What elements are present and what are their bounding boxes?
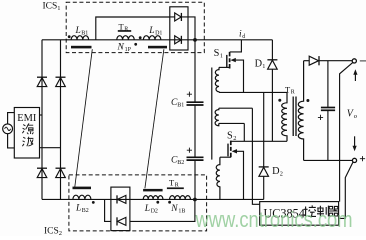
winding T1b (middle) <box>215 108 219 126</box>
svg-text:R: R <box>124 26 128 32</box>
svg-text:2: 2 <box>280 171 283 178</box>
wire riser to top diode <box>96 17 170 40</box>
svg-text:1B: 1B <box>178 208 185 214</box>
svg-text:B1: B1 <box>177 102 184 108</box>
diode D2 branch <box>263 92 265 166</box>
glyph 滤 <box>22 123 33 134</box>
inductor L_B2 <box>73 195 91 199</box>
wire EMI to left bridge leg <box>40 114 43 116</box>
bridge diode top-right <box>56 77 66 86</box>
polarity dot N_1B <box>168 201 171 204</box>
mosfet S1 <box>219 52 244 93</box>
wire bottom rail <box>42 198 264 200</box>
core line middle <box>211 68 213 160</box>
output capacitor <box>321 107 335 109</box>
svg-text:L: L <box>148 26 154 36</box>
node B junction dot <box>193 198 197 202</box>
wire S2 drain line <box>231 140 287 142</box>
wire bottom diode loop left <box>105 199 111 221</box>
wire bottom diode out right to node B <box>130 199 195 221</box>
core coupling diagonal right <box>145 49 164 188</box>
bridge diode bottom-right <box>56 168 66 177</box>
wire secondary top to output <box>304 60 309 62</box>
wire terminal diagonal top <box>340 63 353 202</box>
controller box UC3854 <box>260 202 339 226</box>
polarity dot L_D2 <box>156 201 159 204</box>
diode D1 branch <box>271 40 273 60</box>
output terminal top <box>352 59 356 63</box>
svg-text:L: L <box>75 26 81 36</box>
dashed box ICS2 <box>69 175 207 231</box>
polarity dot L_B1 <box>68 35 71 38</box>
polarity dot L_D1 <box>139 36 142 39</box>
minus mark <box>360 60 366 62</box>
glyph 波 <box>22 137 33 146</box>
inductor L_D1 <box>143 36 160 40</box>
core coupling diagonal left <box>75 49 93 187</box>
diode D_f2 bottom (points right) <box>175 36 182 44</box>
winding T1c (S2 cell) <box>216 157 220 199</box>
AC source V_in <box>3 113 15 148</box>
svg-text:2: 2 <box>233 135 236 142</box>
wire capacitor bus <box>194 40 196 102</box>
wire secondary bottom to output <box>304 159 353 161</box>
svg-text:www.cntronics.com: www.cntronics.com <box>195 207 353 232</box>
arrow V_o up <box>354 74 356 82</box>
svg-text:o: o <box>354 113 358 120</box>
svg-text:N: N <box>117 42 125 52</box>
mosfet S2 <box>220 141 244 200</box>
svg-text:B2: B2 <box>82 208 89 214</box>
plus mark <box>360 156 365 161</box>
node A junction dot <box>193 38 197 42</box>
bridge diode top-left <box>37 77 47 86</box>
wire terminal diagonal bottom <box>339 162 353 218</box>
core bar under L_B1 <box>71 46 92 49</box>
svg-text:B1: B1 <box>81 31 88 37</box>
inductor L_D2 <box>143 196 163 200</box>
diode D_f4 bottom (points left) <box>117 217 126 225</box>
bridge diode bottom-left <box>37 168 47 177</box>
svg-text:ICS2: ICS2 <box>44 226 62 236</box>
diode D_f3 top (points left) <box>117 195 126 203</box>
polarity dot T_R secondary <box>306 99 309 102</box>
capacitor C_B2 <box>187 156 204 158</box>
svg-text:R: R <box>175 183 179 189</box>
dashed box ICS1 <box>66 2 204 52</box>
glyph 制 <box>317 206 328 217</box>
plus output cap <box>318 115 323 120</box>
svg-text:R: R <box>291 89 295 95</box>
transformer T_R secondary winding <box>298 61 303 161</box>
wire S1 drain riser <box>230 40 242 52</box>
polarity dot N_1P <box>134 43 137 46</box>
winding N_1P <box>117 36 134 40</box>
EMI filter box <box>14 108 39 159</box>
wire winding bottom to riser <box>219 122 245 124</box>
wire winding top to riser <box>219 107 253 109</box>
transformer T_R core <box>292 97 294 137</box>
diode box ICS1 <box>170 7 188 50</box>
svg-text:D2: D2 <box>151 208 158 214</box>
inductor L_B1 <box>71 36 88 40</box>
output diode (points right) <box>309 56 318 65</box>
svg-text:1: 1 <box>262 63 265 70</box>
output terminal bottom <box>352 158 356 162</box>
core bar T_R bottom <box>167 187 184 189</box>
capacitor C_B1 <box>187 101 204 103</box>
bridge right leg <box>60 40 62 200</box>
svg-text:ICS1: ICS1 <box>43 2 61 13</box>
diode D_f1 top (points right) <box>175 13 182 21</box>
plus C_B1 <box>187 92 192 97</box>
svg-text:L: L <box>75 203 81 213</box>
transformer core bar T_R top <box>118 30 131 32</box>
core bar under L_D1 <box>148 46 167 49</box>
diode box ICS2 <box>111 187 130 231</box>
polarity dot T_R primary <box>278 99 281 102</box>
svg-text:1P: 1P <box>125 47 132 53</box>
plus C_B2 <box>187 148 192 153</box>
wire W1 to transformer <box>219 91 287 93</box>
wire top rail <box>42 39 272 41</box>
transformer T_R primary winding <box>282 92 287 141</box>
glyph 控 <box>304 205 316 216</box>
wire top diode out to node A <box>188 17 195 40</box>
core bar above L_B2 <box>73 187 92 190</box>
glyph 器 <box>329 206 339 216</box>
svg-text:S: S <box>214 48 220 59</box>
svg-text:N: N <box>170 204 178 214</box>
winding N_1B <box>170 196 191 200</box>
svg-text:L: L <box>144 204 150 214</box>
svg-text:B2: B2 <box>177 160 184 166</box>
winding T1a (S1 cell) <box>215 67 219 92</box>
wire EMI to right bridge leg <box>40 147 61 149</box>
svg-text:D1: D1 <box>155 31 162 37</box>
wire riser coil2 top down to UC box <box>252 108 259 204</box>
wire top diode feed inside box <box>170 16 188 18</box>
core bar above L_D2 <box>143 189 163 192</box>
svg-text:S: S <box>227 130 233 141</box>
output capacitor branch <box>327 61 329 107</box>
arrow V_o down <box>354 136 356 146</box>
svg-text:1: 1 <box>220 53 223 60</box>
svg-text:d: d <box>242 34 245 40</box>
polarity dot L_B2 <box>92 201 95 204</box>
bridge left leg <box>41 40 43 200</box>
wire riser coil2 bottom <box>243 123 245 141</box>
svg-text:EMI: EMI <box>17 113 37 124</box>
